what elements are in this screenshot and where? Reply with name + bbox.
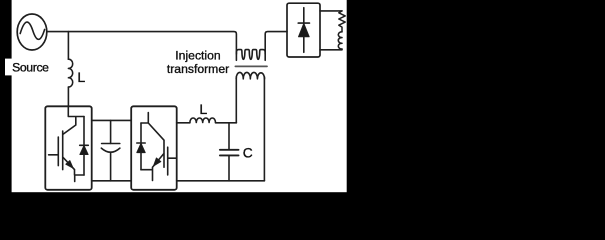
injection transformer T1 secondary coil (236, 72, 264, 78)
inductor L (source branch coil) (68, 59, 72, 87)
load bottom wire (320, 48, 342, 51)
svg-text:L: L (199, 102, 207, 118)
IGBT Q2 with antiparallel diode D2 (mirrored) (137, 113, 176, 181)
wire: coil to left converter box (67, 87, 69, 106)
svg-text:C: C (243, 146, 253, 161)
wire: node up to transformer secondary left (235, 77, 237, 123)
DC-link capacitor (101, 120, 120, 180)
svg-text:Source: Source (12, 60, 49, 74)
DC bus bottom rail (92, 180, 132, 182)
load inductor coil (338, 32, 342, 49)
bottom return rail (177, 180, 265, 182)
rectifier box (287, 3, 320, 57)
converter box left (VSC1) (45, 106, 91, 190)
wire: shunt branch down from line (67, 32, 69, 60)
filter inductor L (190, 118, 216, 123)
AC source VS (17, 14, 47, 50)
load resistor R zigzag (339, 11, 345, 32)
svg-text:transformer: transformer (167, 62, 229, 76)
DC bus top rail (92, 119, 132, 121)
injection transformer T1 core bar (235, 65, 267, 67)
injection transformer T1 primary coil (236, 50, 265, 61)
converter box right (VSC2) (131, 106, 177, 190)
wire: source output to transformer primary (with corner down) (47, 32, 237, 54)
filter capacitor C branch (220, 123, 239, 181)
svg-text:L: L (77, 70, 85, 86)
wire: transformer secondary right down to rail (263, 77, 265, 181)
svg-text:Injection: Injection (175, 49, 220, 63)
IGBT Q1 with antiparallel diode D1 (49, 106, 89, 181)
wire: primary right lead up and to rectifier (265, 32, 287, 54)
wire: VSC2 output to filter inductor (177, 122, 190, 124)
load top wire (320, 10, 342, 12)
diode D3 inside rectifier (298, 8, 309, 53)
wire: filter inductor to node (216, 122, 237, 124)
